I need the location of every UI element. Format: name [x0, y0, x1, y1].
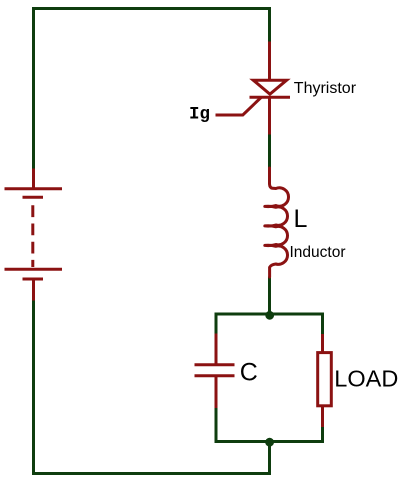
svg-text:Ig: Ig [189, 105, 210, 125]
svg-text:L: L [294, 205, 308, 233]
svg-text:Inductor: Inductor [290, 244, 346, 261]
svg-text:C: C [240, 359, 258, 387]
svg-text:LOAD: LOAD [334, 366, 398, 392]
svg-text:Thyristor: Thyristor [294, 80, 357, 97]
